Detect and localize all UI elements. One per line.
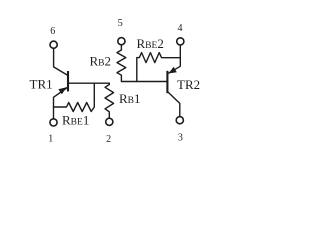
svg-text:1: 1 <box>48 133 53 144</box>
svg-text:5: 5 <box>118 18 123 29</box>
svg-text:2: 2 <box>106 134 111 145</box>
svg-text:3: 3 <box>178 132 183 143</box>
svg-text:TR2: TR2 <box>177 77 200 92</box>
svg-text:6: 6 <box>50 26 55 37</box>
svg-text:TR1: TR1 <box>30 76 53 91</box>
svg-text:4: 4 <box>178 23 183 34</box>
